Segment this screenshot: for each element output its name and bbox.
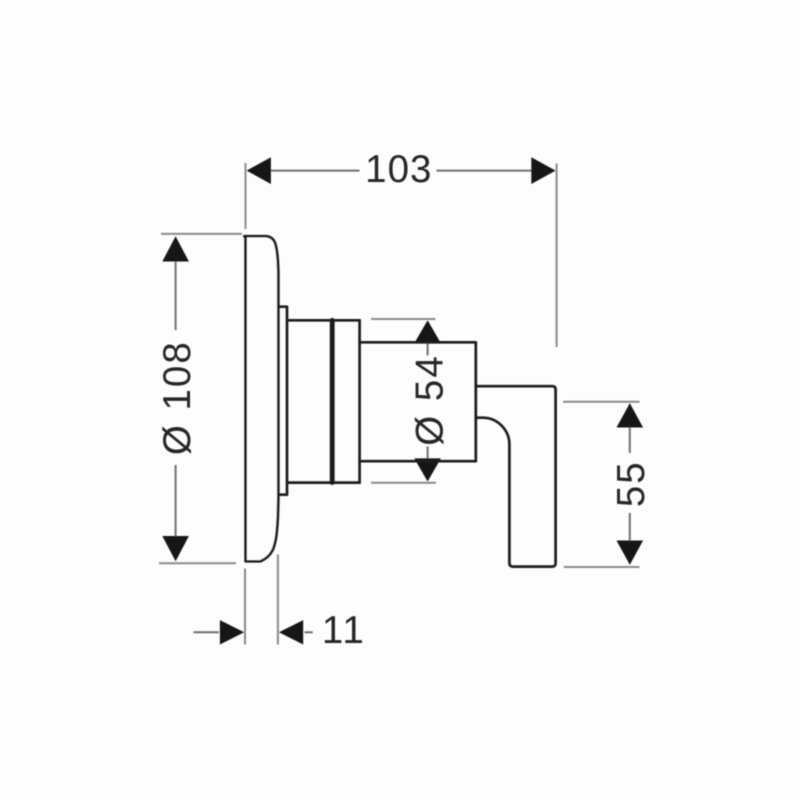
svg-text:103: 103 [365,148,432,191]
svg-text:55: 55 [610,460,653,507]
svg-text:11: 11 [322,609,366,652]
svg-text:Ø 108: Ø 108 [156,340,199,455]
svg-text:Ø 54: Ø 54 [408,354,451,445]
